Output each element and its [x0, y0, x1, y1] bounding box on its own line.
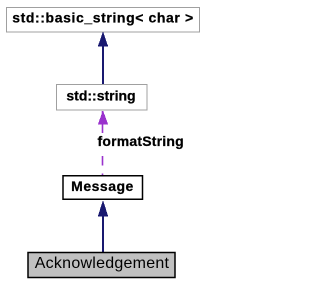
svg-text:formatString: formatString — [98, 133, 184, 149]
svg-text:std::string: std::string — [66, 88, 135, 104]
inheritance edge (solid): std::string to std::basic_string< char > — [98, 32, 108, 86]
svg-text:Acknowledgement: Acknowledgement — [35, 255, 170, 272]
inheritance edge (solid): Acknowledgement to Message — [98, 200, 108, 252]
class node: Message — [63, 176, 143, 200]
usage edge (dashed): Message to std::string — [98, 111, 108, 176]
svg-text:Message: Message — [71, 178, 134, 194]
svg-text:std::basic_string< char >: std::basic_string< char > — [12, 10, 194, 26]
edge label: formatString — [98, 133, 184, 149]
class node: std::basic_string< char > — [7, 8, 200, 33]
class node: Acknowledgement (current class, filled) — [28, 253, 175, 278]
class node: std::string — [57, 85, 148, 111]
